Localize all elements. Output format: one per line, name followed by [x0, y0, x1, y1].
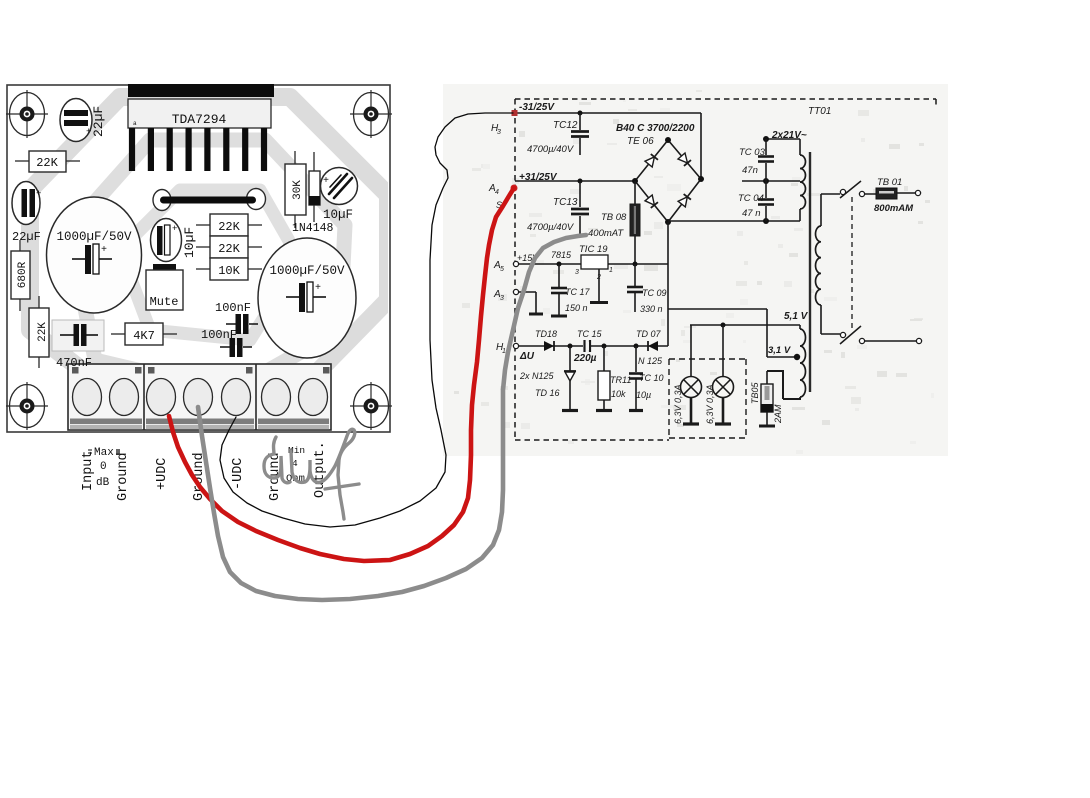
svg-text:TC 10: TC 10 — [639, 373, 664, 383]
svg-text:+UDC: +UDC — [155, 458, 170, 490]
svg-text:dB: dB — [96, 477, 110, 489]
svg-text:3: 3 — [575, 269, 579, 276]
svg-text:22µF: 22µF — [12, 230, 41, 244]
svg-text:22K: 22K — [218, 220, 240, 234]
svg-text:0: 0 — [100, 461, 107, 473]
svg-text:470nF: 470nF — [56, 356, 92, 370]
svg-text:B40 C 3700/2200: B40 C 3700/2200 — [616, 123, 695, 134]
svg-text:100nF: 100nF — [215, 301, 251, 315]
svg-text:TC 03: TC 03 — [739, 147, 766, 158]
svg-text:30K: 30K — [292, 180, 304, 200]
svg-text:TC 17: TC 17 — [565, 287, 591, 297]
svg-text:22K: 22K — [36, 156, 58, 170]
svg-text:-UDC: -UDC — [231, 458, 246, 490]
svg-text:a: a — [133, 120, 137, 127]
svg-text:10µF: 10µF — [323, 208, 353, 222]
svg-text:TC13: TC13 — [553, 197, 578, 208]
svg-text:22K: 22K — [218, 242, 240, 256]
svg-text:150 n: 150 n — [565, 303, 588, 313]
svg-text:6,3V 0,3A: 6,3V 0,3A — [673, 384, 683, 424]
svg-text:400mAT: 400mAT — [588, 228, 624, 239]
svg-text:+: + — [315, 283, 321, 294]
svg-text:TE 06: TE 06 — [627, 136, 654, 147]
svg-text:+31/25V: +31/25V — [519, 172, 558, 183]
svg-text:Mute: Mute — [150, 295, 179, 309]
svg-text:TC 09: TC 09 — [642, 288, 667, 298]
svg-text:ΔU: ΔU — [519, 351, 535, 362]
svg-text:TB05: TB05 — [750, 381, 760, 404]
svg-text:1: 1 — [609, 267, 613, 274]
svg-text:10k: 10k — [611, 389, 626, 399]
svg-text:TIC 19: TIC 19 — [579, 244, 608, 255]
svg-text:5,1 V: 5,1 V — [784, 311, 809, 322]
svg-text:2: 2 — [596, 274, 601, 281]
svg-text:TDA7294: TDA7294 — [172, 112, 227, 127]
svg-text:TT01: TT01 — [808, 106, 831, 117]
svg-text:800mAM: 800mAM — [874, 203, 914, 214]
svg-text:22µF: 22µF — [91, 106, 106, 137]
svg-text:4700µ/40V: 4700µ/40V — [527, 144, 575, 155]
svg-text:680R: 680R — [17, 261, 29, 288]
svg-text:TB 01: TB 01 — [877, 177, 902, 188]
svg-text:220µ: 220µ — [573, 353, 597, 364]
svg-text:22K: 22K — [37, 322, 49, 342]
svg-text:1000µF/50V: 1000µF/50V — [269, 264, 345, 278]
svg-text:4700µ/40V: 4700µ/40V — [527, 222, 575, 233]
svg-text:10K: 10K — [218, 264, 240, 278]
svg-text:N 125: N 125 — [638, 356, 663, 366]
svg-text:Max: Max — [94, 447, 114, 459]
svg-text:-31/25V: -31/25V — [519, 102, 555, 113]
svg-text:330 n: 330 n — [640, 304, 663, 314]
svg-text:5: 5 — [500, 266, 504, 273]
svg-text:47n: 47n — [742, 165, 758, 176]
svg-text:+: + — [323, 176, 329, 187]
svg-text:TC 15: TC 15 — [577, 329, 603, 339]
svg-text:+: + — [36, 189, 41, 199]
svg-text:TR11: TR11 — [610, 375, 631, 385]
svg-text:6,3V 0,3A: 6,3V 0,3A — [705, 384, 715, 424]
svg-text:2x21V~: 2x21V~ — [771, 130, 807, 141]
svg-text:TD 16: TD 16 — [535, 388, 560, 398]
svg-text:TD18: TD18 — [535, 329, 557, 339]
svg-text:TC 04: TC 04 — [738, 193, 764, 204]
svg-text:TD 07: TD 07 — [636, 329, 662, 339]
svg-text:4K7: 4K7 — [133, 329, 155, 343]
svg-text:TB 08: TB 08 — [601, 212, 627, 223]
svg-text:10µ: 10µ — [636, 390, 651, 400]
svg-text:4: 4 — [495, 189, 499, 196]
svg-text:1N4148: 1N4148 — [292, 222, 334, 235]
svg-text:Ground: Ground — [116, 452, 131, 501]
svg-text:3: 3 — [497, 129, 501, 136]
svg-text:1000µF/50V: 1000µF/50V — [56, 230, 132, 244]
svg-text:2AM: 2AM — [773, 404, 783, 424]
svg-text:47 n: 47 n — [742, 208, 761, 219]
svg-text:+: + — [101, 245, 107, 256]
svg-text:+: + — [172, 224, 177, 234]
svg-text:3,1 V: 3,1 V — [768, 345, 791, 356]
svg-text:TC12: TC12 — [553, 120, 578, 131]
svg-text:10µF: 10µF — [182, 227, 197, 258]
svg-text:3: 3 — [500, 295, 504, 302]
svg-text:2x N125: 2x N125 — [519, 371, 555, 381]
svg-text:7815: 7815 — [551, 250, 572, 260]
